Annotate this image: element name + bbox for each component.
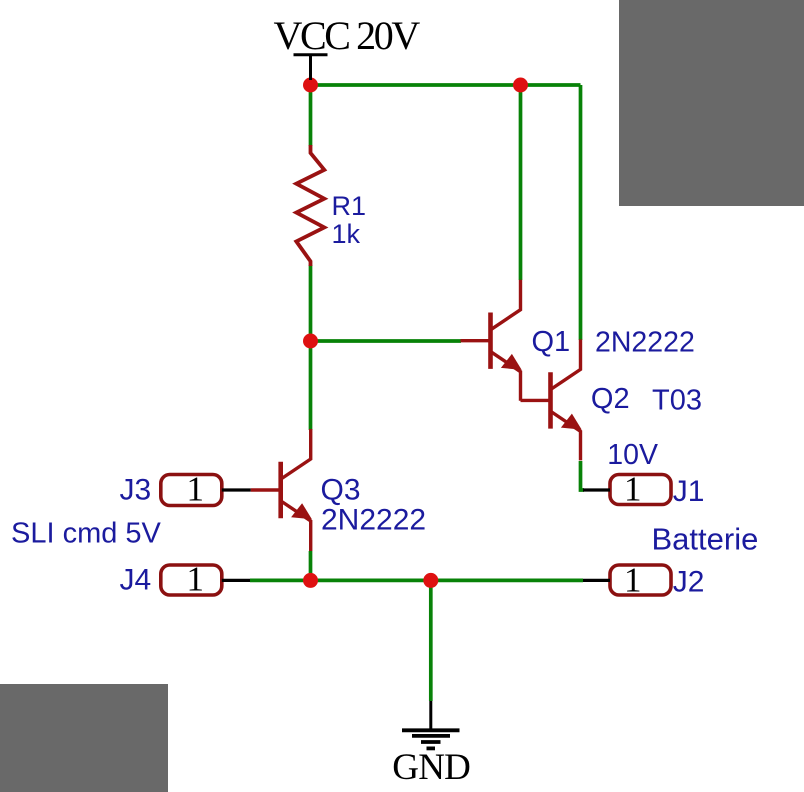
svg-text:SLI cmd 5V: SLI cmd 5V (11, 517, 162, 549)
connector J3 (161, 475, 251, 506)
svg-text:10V: 10V (607, 439, 658, 471)
power symbol VCC (294, 55, 328, 80)
transistor Q3 (NPN 2N2222) (251, 429, 312, 551)
connector J4 (161, 565, 250, 595)
svg-text:R1: R1 (332, 191, 367, 221)
junction at VCC / R1 (303, 78, 318, 93)
svg-text:Q3: Q3 (321, 474, 361, 507)
svg-text:1: 1 (187, 560, 205, 599)
svg-text:1: 1 (187, 469, 205, 508)
junction at top bus / Q1 collector (513, 78, 528, 93)
junction at R1 bottom / Q1 base node (303, 334, 318, 349)
wire VCC to R1 top (309, 85, 313, 146)
svg-text:1k: 1k (332, 219, 361, 249)
svg-text:1: 1 (624, 561, 642, 600)
transistor Q1 (NPN 2N2222) (461, 280, 522, 401)
junction at bottom bus / GND (423, 573, 438, 588)
svg-text:J2: J2 (673, 566, 705, 599)
svg-text:1: 1 (624, 470, 642, 509)
svg-text:Q1: Q1 (532, 326, 571, 358)
transistor Q2 (NPN T03) (521, 339, 582, 460)
wire top bus to Q1 collector (519, 85, 523, 280)
wire Q2 emitter to J1 (581, 461, 585, 490)
svg-text:J1: J1 (673, 475, 705, 508)
resistor R1 (296, 145, 324, 266)
wire VCC top bus (310,85)-(580,85) (311, 83, 581, 87)
wire bottom bus to GND (429, 580, 433, 701)
svg-text:GND: GND (392, 747, 470, 788)
wire R1 bottom to Q3 collector (309, 265, 313, 430)
svg-text:2N2222: 2N2222 (595, 326, 695, 358)
gray redaction block top-right (619, 0, 804, 206)
ground symbol GND (402, 701, 460, 748)
junction at Q3 emitter / bottom bus (303, 573, 318, 588)
gray redaction block bottom-left (0, 684, 168, 792)
svg-text:Batterie: Batterie (652, 522, 759, 557)
svg-text:2N2222: 2N2222 (321, 503, 426, 536)
wire top bus to Q2 collector (579, 85, 583, 340)
wire Q3 emitter to bottom bus (309, 551, 313, 580)
wire bottom bus J4 to J2 (250, 579, 583, 583)
connector J2 (583, 565, 671, 595)
svg-text:VCC 20V: VCC 20V (274, 13, 421, 58)
svg-text:J4: J4 (120, 564, 152, 597)
svg-text:J3: J3 (120, 474, 152, 507)
connector J1 (583, 475, 671, 505)
svg-text:Q2: Q2 (591, 383, 630, 415)
svg-text:T03: T03 (652, 384, 702, 416)
wire node to Q1 base (311, 339, 462, 343)
